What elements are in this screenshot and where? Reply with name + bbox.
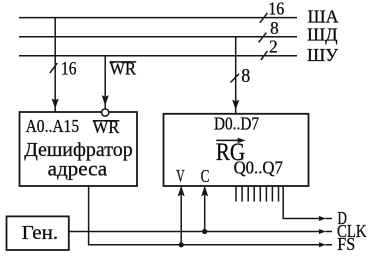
arrowhead on D tap <box>233 100 239 109</box>
svg-text:Ген.: Ген. <box>22 222 59 244</box>
bus line SHA (address bus) <box>19 17 297 19</box>
bus name labels <box>307 6 339 65</box>
wire Q0 output <box>235 186 237 202</box>
svg-text:ШД: ШД <box>307 24 338 44</box>
shift arrow above RG <box>216 139 239 141</box>
wire WR tap to decoder <box>104 56 106 109</box>
bus width labels <box>61 0 284 87</box>
wire serial data output D <box>283 186 319 219</box>
svg-text:A0..A15: A0..A15 <box>26 116 80 136</box>
bus line SHD (data bus) <box>19 36 297 38</box>
slash 8 on SHD <box>259 33 267 43</box>
svg-text:16: 16 <box>268 0 284 19</box>
svg-text:Q0..Q7: Q0..Q7 <box>234 158 284 178</box>
wire V tap from FS line <box>180 187 182 244</box>
wire A-bus tap to decoder <box>54 18 56 112</box>
svg-text:C: C <box>201 166 210 186</box>
slash 16 on SHA <box>260 13 268 23</box>
junction V-FS <box>179 242 184 247</box>
svg-text:8: 8 <box>270 18 279 38</box>
arrowhead on A tap <box>52 99 58 108</box>
wire C tap from CLK line <box>204 187 206 231</box>
bus line SHU (control bus) <box>19 55 297 57</box>
generator block <box>7 216 69 250</box>
wire FS from decoder <box>89 186 319 245</box>
inversion circle at WR input of decoder <box>102 109 109 116</box>
slash 2 on SHU <box>261 51 268 60</box>
wire CLK from generator <box>69 231 319 233</box>
svg-text:V: V <box>176 166 185 186</box>
svg-text:ШУ: ШУ <box>307 45 339 65</box>
svg-text:16: 16 <box>61 59 77 80</box>
svg-text:ША: ША <box>308 6 339 26</box>
register block RG <box>164 114 309 186</box>
svg-text:FS: FS <box>337 234 355 254</box>
svg-text:адреса: адреса <box>48 157 108 181</box>
arrowhead on WR tap <box>102 96 108 105</box>
output comb under RG (Q0..Q7 lines) <box>236 186 279 202</box>
svg-text:8: 8 <box>241 66 250 87</box>
slash 8 on D tap <box>231 74 240 83</box>
wire D-bus tap to register <box>235 37 237 113</box>
junction C-CLK <box>202 229 207 234</box>
svg-text:D0..D7: D0..D7 <box>214 114 259 134</box>
decoder block U1 <box>20 112 138 186</box>
slash 16 on A tap <box>50 63 58 73</box>
svg-text:2: 2 <box>269 37 278 57</box>
